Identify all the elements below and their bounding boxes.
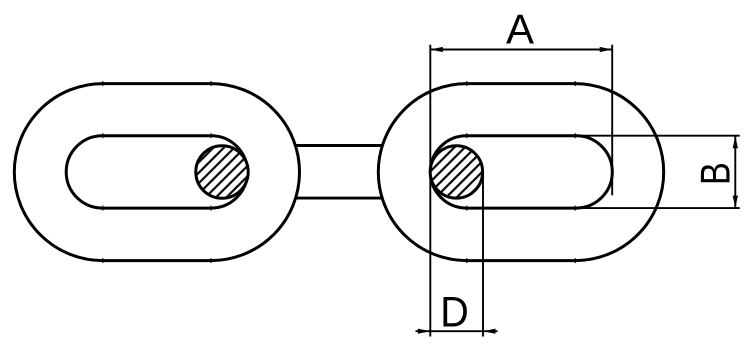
chain link L1 inner contour [66,136,247,208]
wire cross-section circle in link L1 (hatched) [196,146,248,198]
dimension D arrow left (outside, pointing right) [418,329,431,334]
svg-text:A: A [506,5,534,52]
dimension A extension line right [611,45,613,196]
chain link L2 tangent ticks [467,81,575,263]
dimension A arrow left [430,47,443,52]
chain link L2 inner contour [430,136,612,208]
dimension B arrow top [733,136,738,149]
chain link L1 outer contour [14,84,299,261]
dimension D line with outside tails [416,330,498,332]
middle link (edge view) bottom wire line [295,197,384,200]
label D [440,288,469,336]
dimension D arrow right (outside, pointing left) [483,329,496,334]
svg-text:D: D [440,288,469,336]
dimension B line [734,136,736,208]
dimension A line [430,49,612,51]
wire cross-section circle in link L2 (hatched) [430,146,482,198]
svg-text:B: B [692,162,739,185]
dimension A arrow right [600,47,613,52]
dimension A extension line left (shared with D) [429,45,431,337]
chain link L2 outer contour [378,84,663,261]
label B (rotated) [692,162,739,185]
dimension B extension line top [576,135,740,137]
middle link (edge view) top wire line [295,144,384,147]
dimension B extension line bottom [576,207,740,209]
dimension D extension line right [482,170,484,337]
chain link L1 tangent ticks [103,81,211,263]
dimension B arrow bottom [733,196,738,209]
